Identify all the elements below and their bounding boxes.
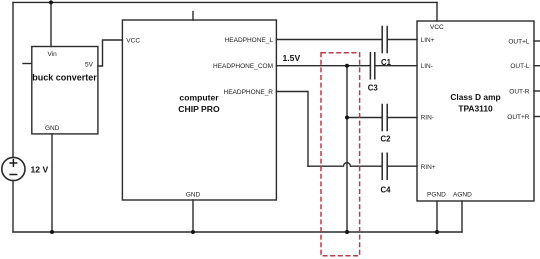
svg-text:LIN+: LIN+ xyxy=(421,37,435,44)
wire HEADPHONE_L to C1 xyxy=(276,39,381,41)
svg-text:C1: C1 xyxy=(381,58,392,67)
svg-text:OUT+R: OUT+R xyxy=(507,114,530,121)
chip box U-computer xyxy=(122,20,276,200)
wire top rail 12V xyxy=(13,1,437,3)
junction node 1.5V xyxy=(345,64,349,68)
junction chip gnd xyxy=(191,230,195,234)
wire C3 to LIN- xyxy=(375,65,417,67)
wire Vin drop xyxy=(50,2,52,46)
wire chip GND drop xyxy=(192,200,194,232)
svg-text:computer: computer xyxy=(179,93,219,103)
svg-text:OUT+L: OUT+L xyxy=(508,39,530,46)
junction pgnd xyxy=(435,230,439,234)
svg-text:1.5V: 1.5V xyxy=(283,53,301,63)
svg-text:OUT-R: OUT-R xyxy=(509,88,530,95)
wire C1 to LIN+ xyxy=(388,39,417,41)
capacitor C1 plates xyxy=(382,27,387,53)
wire PGND drop xyxy=(436,201,438,232)
svg-text:buck converter: buck converter xyxy=(32,73,97,83)
wire C2 to RIN- xyxy=(388,117,417,119)
svg-text:Vin: Vin xyxy=(48,51,58,58)
svg-text:RIN+: RIN+ xyxy=(421,164,436,171)
svg-text:12 V: 12 V xyxy=(31,165,49,175)
svg-text:PGND: PGND xyxy=(427,192,446,199)
svg-text:C2: C2 xyxy=(381,135,392,144)
wire HEADPHONE_R down xyxy=(276,92,308,167)
wire center vertical node xyxy=(346,66,348,232)
junction node gnd xyxy=(345,230,349,234)
svg-text:C4: C4 xyxy=(381,186,392,195)
svg-text:HEADPHONE_L: HEADPHONE_L xyxy=(225,37,274,44)
svg-text:C3: C3 xyxy=(368,83,379,92)
voltage source plus sign xyxy=(9,159,17,175)
wire bottom ground bus xyxy=(13,231,462,233)
junction node RIN- xyxy=(345,116,349,120)
wire buck input stub xyxy=(23,63,32,65)
svg-text:AGND: AGND xyxy=(453,192,472,199)
wire AGND drop xyxy=(461,201,463,232)
wire OUT-L stub xyxy=(534,65,540,67)
capacitor C4 plates xyxy=(382,153,387,179)
svg-text:TPA3110: TPA3110 xyxy=(458,104,493,114)
wire C4 to RIN+ xyxy=(388,165,417,167)
buck converter box xyxy=(32,47,98,134)
wire 5V to chip VCC xyxy=(98,40,123,66)
wire buck GND drop xyxy=(51,134,53,232)
wire RIN+ feed with hop xyxy=(308,163,381,167)
red dashed highlight box xyxy=(321,53,360,256)
svg-text:HEADPHONE_R: HEADPHONE_R xyxy=(224,89,274,96)
wire amp VCC drop xyxy=(436,2,438,21)
svg-text:HEADPHONE_COM: HEADPHONE_COM xyxy=(213,63,273,70)
capacitor C3 plates xyxy=(370,53,374,79)
junction dot top rail xyxy=(49,0,439,234)
svg-text:OUT-L: OUT-L xyxy=(510,63,530,70)
wire left rail lower xyxy=(12,181,14,232)
wire RIN- to C2 xyxy=(347,117,381,119)
wire OUT-R stub xyxy=(534,90,540,92)
voltage source V1 circle xyxy=(2,157,25,180)
wire OUT+L stub xyxy=(534,40,540,42)
junction buck gnd xyxy=(50,230,54,234)
svg-text:GND: GND xyxy=(45,125,60,132)
svg-text:LIN-: LIN- xyxy=(421,63,433,70)
wire HEADPHONE_COM to C3 xyxy=(276,65,369,67)
svg-text:RIN-: RIN- xyxy=(421,115,434,122)
svg-text:5V: 5V xyxy=(85,61,94,68)
wire chip top stub xyxy=(192,12,194,21)
amp box U-TPA3110 xyxy=(417,21,534,201)
svg-text:VCC: VCC xyxy=(126,38,140,45)
svg-text:Class D amp: Class D amp xyxy=(450,92,500,102)
capacitor C2 plates xyxy=(382,105,387,131)
wire OUT+R stub xyxy=(534,116,540,118)
svg-text:GND: GND xyxy=(186,192,201,199)
voltage source minus sign xyxy=(9,174,17,176)
svg-text:CHIP PRO: CHIP PRO xyxy=(178,104,220,114)
svg-text:VCC: VCC xyxy=(430,24,444,31)
wire left rail upper xyxy=(12,2,14,157)
